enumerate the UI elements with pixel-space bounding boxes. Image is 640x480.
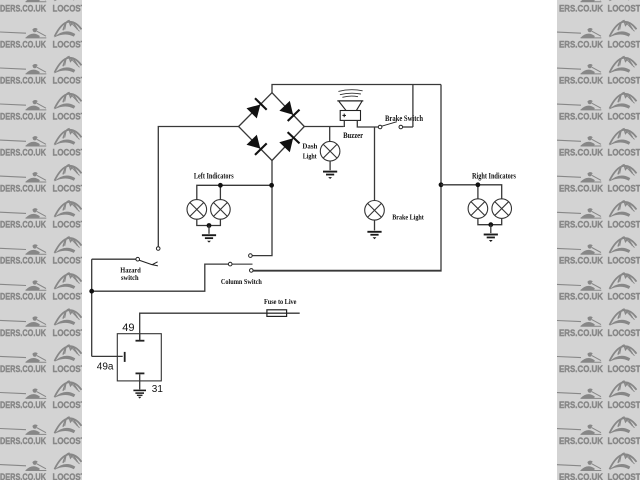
fuse <box>267 310 287 317</box>
svg-text:Left Indicators: Left Indicators <box>194 172 234 181</box>
relay pin 49 terminal <box>136 340 145 342</box>
junction dot right indicators ground <box>488 222 493 227</box>
junction dot left bus x bridge drop <box>269 183 274 188</box>
watermark right strip <box>555 0 640 480</box>
ground left indicators <box>202 235 216 242</box>
svg-text:LOCOST: LOCOST <box>608 472 640 480</box>
svg-text:ERS.CO.UK: ERS.CO.UK <box>559 184 603 194</box>
wire column lower contact to right <box>253 269 441 271</box>
lamp brake light <box>365 201 385 221</box>
lamp dash light <box>320 141 340 161</box>
svg-text:ERS.CO.UK: ERS.CO.UK <box>559 400 603 410</box>
watermark left strip <box>0 0 86 480</box>
svg-text:ERS.CO.UK: ERS.CO.UK <box>559 436 603 446</box>
svg-text:Brake Light: Brake Light <box>392 213 424 222</box>
svg-text:LOCOST: LOCOST <box>53 184 86 194</box>
wire right indicators bottom bus <box>478 218 502 224</box>
svg-text:LOCOST: LOCOST <box>53 328 86 338</box>
svg-text:DERS.CO.UK: DERS.CO.UK <box>0 148 46 158</box>
wire right indicator lamp1 lead <box>477 185 479 199</box>
wire brake switch output <box>403 126 413 128</box>
svg-text:DERS.CO.UK: DERS.CO.UK <box>0 292 46 302</box>
switch hazard: lever <box>139 260 158 266</box>
svg-text:LOCOST: LOCOST <box>608 184 640 194</box>
svg-text:LOCOST: LOCOST <box>53 75 86 85</box>
lamp left indicator 2 <box>211 200 231 220</box>
svg-text:LOCOST: LOCOST <box>53 400 86 410</box>
wire bridge edge L-B <box>239 127 272 161</box>
svg-text:ERS.CO.UK: ERS.CO.UK <box>559 3 603 13</box>
svg-text:DERS.CO.UK: DERS.CO.UK <box>0 256 46 266</box>
svg-text:ERS.CO.UK: ERS.CO.UK <box>559 328 603 338</box>
svg-text:ERS.CO.UK: ERS.CO.UK <box>559 75 603 85</box>
svg-text:DERS.CO.UK: DERS.CO.UK <box>0 75 46 85</box>
svg-text:LOCOST: LOCOST <box>53 292 86 302</box>
svg-text:ERS.CO.UK: ERS.CO.UK <box>559 111 603 121</box>
wire right main vertical <box>253 85 441 272</box>
lamp right indicator 2 <box>492 199 512 219</box>
svg-text:DERS.CO.UK: DERS.CO.UK <box>0 39 46 49</box>
relay pin 49a terminal <box>124 352 126 362</box>
svg-text:LOCOST: LOCOST <box>608 220 640 230</box>
svg-text:Buzzer: Buzzer <box>343 131 363 140</box>
wire brake light ground lead <box>374 220 376 230</box>
relay box <box>117 334 161 381</box>
wire bridge left to hazard <box>158 127 238 247</box>
svg-text:ERS.CO.UK: ERS.CO.UK <box>559 472 603 480</box>
svg-text:LOCOST: LOCOST <box>53 364 86 374</box>
diode D4 <box>279 138 293 152</box>
wire hazard feed <box>92 258 136 260</box>
wire buzzer left leg <box>343 120 345 127</box>
svg-text:DERS.CO.UK: DERS.CO.UK <box>0 184 46 194</box>
svg-text:DERS.CO.UK: DERS.CO.UK <box>0 328 46 338</box>
svg-text:LOCOST: LOCOST <box>53 39 86 49</box>
wire dash light lead <box>329 127 331 142</box>
wire relay 49a feed <box>92 355 123 357</box>
svg-text:LOCOST: LOCOST <box>608 39 640 49</box>
svg-text:LOCOST: LOCOST <box>53 256 86 266</box>
switch brake: lever <box>382 122 397 127</box>
switch hazard: upper terminal <box>156 247 160 251</box>
diode D1 <box>247 105 261 119</box>
wire left indicators ground lead <box>208 226 210 234</box>
wire brake light lead <box>374 127 376 200</box>
svg-text:LOCOST: LOCOST <box>608 364 640 374</box>
svg-text:switch: switch <box>121 274 139 282</box>
wire bridge right to buzzer <box>304 126 343 128</box>
svg-text:ERS.CO.UK: ERS.CO.UK <box>559 220 603 230</box>
switch column: lever <box>232 263 253 265</box>
svg-text:Right Indicators: Right Indicators <box>472 172 516 181</box>
svg-text:LOCOST: LOCOST <box>608 3 640 13</box>
svg-text:31: 31 <box>152 384 164 395</box>
svg-text:LOCOST: LOCOST <box>53 111 86 121</box>
switch hazard: left terminal <box>136 257 140 261</box>
ground right indicators <box>484 235 498 242</box>
wire bridge bottom to column switch <box>252 161 272 256</box>
svg-text:LOCOST: LOCOST <box>53 220 86 230</box>
switch column: upper contact <box>249 254 253 258</box>
wire left indicator lamp2 lead <box>219 185 221 199</box>
svg-text:DERS.CO.UK: DERS.CO.UK <box>0 111 46 121</box>
wire hazard to junction <box>91 259 93 356</box>
junction dot bottom left <box>89 289 94 294</box>
wire left indicators top bus <box>197 185 272 199</box>
wire bridge edge L-T <box>239 93 272 127</box>
svg-text:LOCOST: LOCOST <box>608 148 640 158</box>
svg-text:DERS.CO.UK: DERS.CO.UK <box>0 3 46 13</box>
svg-text:49a: 49a <box>97 362 114 373</box>
junction dot right bus x lamp1 <box>476 182 481 187</box>
ground dash light <box>323 172 337 179</box>
svg-text:DERS.CO.UK: DERS.CO.UK <box>0 364 46 374</box>
svg-text:49: 49 <box>122 322 134 334</box>
ground brake light <box>367 232 381 239</box>
svg-text:ERS.CO.UK: ERS.CO.UK <box>559 256 603 266</box>
svg-text:DERS.CO.UK: DERS.CO.UK <box>0 220 46 230</box>
svg-text:Dash: Dash <box>302 141 318 150</box>
wire right indicators top bus <box>441 185 502 199</box>
svg-text:DERS.CO.UK: DERS.CO.UK <box>0 400 46 410</box>
wire right indicators ground lead <box>490 225 492 233</box>
wire bridge edge B-R <box>272 127 304 161</box>
wire dash light ground lead <box>329 161 331 170</box>
switch brake: left terminal <box>378 125 382 129</box>
svg-text:DERS.CO.UK: DERS.CO.UK <box>0 436 46 446</box>
lamp left indicator 1 <box>187 200 207 220</box>
relay pin 31 terminal <box>136 372 145 374</box>
wire bridge edge T-R <box>272 93 304 127</box>
wire column switch common <box>92 264 229 291</box>
lamp right indicator 1 <box>468 199 488 219</box>
switch column: lower contact <box>250 269 254 273</box>
svg-text:LOCOST: LOCOST <box>608 256 640 266</box>
junction dot left bus x lamp2 <box>218 183 223 188</box>
svg-text:LOCOST: LOCOST <box>608 328 640 338</box>
svg-text:LOCOST: LOCOST <box>608 400 640 410</box>
svg-text:ERS.CO.UK: ERS.CO.UK <box>559 292 603 302</box>
svg-text:Light: Light <box>303 151 317 160</box>
svg-text:LOCOST: LOCOST <box>608 436 640 446</box>
svg-text:LOCOST: LOCOST <box>608 292 640 302</box>
ground relay <box>133 390 146 398</box>
svg-text:ERS.CO.UK: ERS.CO.UK <box>559 39 603 49</box>
wire buzzer right leg <box>357 120 378 127</box>
diode D2 <box>279 101 293 115</box>
svg-text:LOCOST: LOCOST <box>608 111 640 121</box>
wire left indicators bottom bus <box>197 219 221 225</box>
svg-text:LOCOST: LOCOST <box>53 436 86 446</box>
svg-text:LOCOST: LOCOST <box>53 472 86 480</box>
svg-text:LOCOST: LOCOST <box>608 75 640 85</box>
svg-text:ERS.CO.UK: ERS.CO.UK <box>559 364 603 374</box>
buzzer <box>338 90 362 92</box>
svg-text:Fuse to Live: Fuse to Live <box>264 298 297 306</box>
wire brake switch drop <box>412 85 414 128</box>
svg-text:LOCOST: LOCOST <box>53 148 86 158</box>
svg-text:LOCOST: LOCOST <box>53 3 86 13</box>
wire fuse to live <box>140 313 300 340</box>
switch brake: right terminal <box>399 125 403 129</box>
svg-text:ERS.CO.UK: ERS.CO.UK <box>559 148 603 158</box>
svg-text:Brake Switch: Brake Switch <box>385 114 423 123</box>
wire top bus <box>272 85 441 93</box>
diode D3 <box>247 135 261 149</box>
svg-text:DERS.CO.UK: DERS.CO.UK <box>0 472 46 480</box>
svg-text:Column Switch: Column Switch <box>221 277 263 286</box>
switch column: common terminal <box>228 262 232 266</box>
junction dot right main <box>439 182 444 187</box>
junction dot left indicators ground <box>207 223 212 228</box>
